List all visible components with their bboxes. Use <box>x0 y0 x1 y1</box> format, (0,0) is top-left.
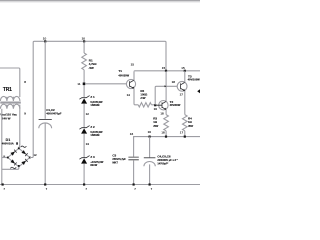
wire: Z2 to Z3 <box>83 134 85 158</box>
top page edge shading <box>0 0 200 3</box>
svg-text:400V/10A: 400V/10A <box>2 142 14 146</box>
AC squiggle bottom <box>10 167 16 168</box>
svg-text:C3: C3 <box>112 154 116 158</box>
wire: secondary left to bridge AC2 <box>1 109 3 185</box>
svg-text:15: 15 <box>131 63 135 67</box>
zener Z1 <box>79 96 89 104</box>
svg-text:40V/100W: 40V/100W <box>188 77 200 81</box>
svg-text:C4,C5,C6: C4,C5,C6 <box>157 155 171 159</box>
svg-text:7: 7 <box>46 187 48 191</box>
node dot at R4 <box>184 136 186 138</box>
wire: rail to R1 <box>83 41 85 53</box>
svg-text:10: 10 <box>43 37 47 41</box>
resistor R1 zigzag <box>82 53 87 70</box>
wire: Z3 to ground rail <box>83 164 85 185</box>
ground dot at bridge <box>2 183 4 185</box>
wire: bridge minus loop to ground <box>2 167 19 170</box>
svg-text:7: 7 <box>3 187 5 191</box>
wire: rail to C3 <box>133 137 135 157</box>
bridge D1 diamond outline <box>8 148 30 167</box>
wire: secondary to bridge AC1 <box>19 105 20 149</box>
svg-text:/5W: /5W <box>187 124 193 128</box>
svg-text:12: 12 <box>33 153 37 157</box>
svg-text:15: 15 <box>162 66 166 70</box>
svg-text:/1W: /1W <box>139 96 145 100</box>
svg-text:40V/30W: 40V/30W <box>170 103 181 107</box>
node dot at C4 branch <box>149 136 151 138</box>
svg-text:11: 11 <box>77 82 80 86</box>
wire: Z1 to Z2 <box>83 104 85 128</box>
wire: R3 to output rail <box>165 131 167 137</box>
bridge D1 diode bottom-right <box>21 159 27 165</box>
wire: top DC rail node 10 <box>33 41 166 70</box>
ground dot at C1,C2 <box>44 183 46 185</box>
wire: rail 2 (node 15) <box>134 71 200 72</box>
capacitor C3 plates <box>128 157 138 160</box>
svg-text:12: 12 <box>86 112 90 116</box>
wire: C3 to ground rail <box>133 160 135 184</box>
ground dot at C4,C5,C6 <box>149 183 151 185</box>
wire: R1 to node 11 <box>83 70 85 97</box>
svg-text:Z 1: Z 1 <box>90 95 95 99</box>
wire: rail branch down to R1 <box>44 41 46 119</box>
node dot 15 at T2 collector <box>165 70 167 72</box>
svg-text:17: 17 <box>180 131 184 135</box>
wire: rail to C4,C5,C6 <box>149 137 151 158</box>
svg-text:14: 14 <box>127 93 131 97</box>
svg-text:17: 17 <box>180 92 184 96</box>
transistor T3 <box>177 81 187 91</box>
wire: R2 to node 16 <box>151 104 155 106</box>
wire: T3 emitter to R4 <box>184 91 186 115</box>
ground dot at C3 <box>133 183 135 185</box>
node dot 10 at R1 branch <box>83 40 85 42</box>
AC squiggle top <box>21 146 27 147</box>
svg-text:18: 18 <box>160 112 164 116</box>
node dot 16 <box>154 104 156 106</box>
svg-text:15: 15 <box>181 66 185 70</box>
output arrow at right edge <box>197 89 200 93</box>
wire: T3 collector to rail 2 <box>184 71 186 83</box>
svg-text:/5W: /5W <box>152 124 158 128</box>
svg-text:240 W: 240 W <box>2 116 11 120</box>
svg-text:1N5339: 1N5339 <box>90 103 100 107</box>
svg-text:16: 16 <box>154 107 158 111</box>
svg-text:Z 3: Z 3 <box>90 155 95 159</box>
svg-text:13: 13 <box>86 142 90 146</box>
wire: T1 emitter down to R2 <box>134 88 138 104</box>
svg-text:8: 8 <box>24 80 26 84</box>
transformer TR1 secondary winding <box>0 104 20 109</box>
svg-text:Z 2: Z 2 <box>90 125 95 129</box>
bridge D1 diode bottom-left <box>10 159 16 165</box>
transformer TR1 core <box>0 102 21 103</box>
wire: T1 collector to rail 2 <box>133 72 135 80</box>
wire: mains input to transformer primary <box>0 68 20 97</box>
svg-text:40V/30W: 40V/30W <box>118 73 129 77</box>
svg-text:9: 9 <box>24 111 26 115</box>
transformer TR1 primary winding <box>0 96 20 101</box>
bridge D1 diode top-left <box>10 150 16 156</box>
svg-text:10: 10 <box>82 37 86 41</box>
svg-text:TR1: TR1 <box>3 87 12 93</box>
resistor R4 zigzag <box>183 115 188 131</box>
capacitor C4,C5,C6 plates <box>144 157 156 159</box>
node dot at T3 collector <box>184 70 186 72</box>
transistor T1 <box>126 79 135 88</box>
capacitor C1,C2 plates <box>39 118 52 120</box>
wire: T2 collector to rail 2 <box>165 71 167 102</box>
svg-text:400V/470µF: 400V/470µF <box>46 112 62 116</box>
wire: ground rail node 7 <box>0 184 200 186</box>
svg-text:/1W: /1W <box>88 66 94 70</box>
svg-text:18: 18 <box>172 80 176 84</box>
transistor T2 <box>156 101 168 110</box>
svg-text:1N5339: 1N5339 <box>90 133 100 137</box>
wire: output rail (node 16/17) <box>134 136 200 139</box>
wire: bridge AC2 tap <box>2 157 8 159</box>
svg-text:14700µF*: 14700µF* <box>157 162 168 165</box>
wire: C4,C5,C6 to ground rail <box>149 164 151 184</box>
bridge corner dots <box>7 147 31 166</box>
zener Z3 <box>79 156 89 164</box>
svg-text:82xW: 82xW <box>90 163 97 167</box>
svg-text:7: 7 <box>134 187 136 191</box>
svg-text:D1: D1 <box>6 138 11 142</box>
zener Z2 <box>79 126 89 134</box>
wire: node 16 up and to T3 base <box>155 86 177 105</box>
wire: R4 to output rail <box>184 131 186 137</box>
wire: bridge plus to rail <box>30 52 33 158</box>
wire: T2 emitter to R3 <box>165 110 167 115</box>
svg-text:16: 16 <box>148 130 152 134</box>
wire: C1,C2 down to ground rail <box>44 123 46 184</box>
junction blob at T2 collector / T3 base crossing <box>165 85 167 87</box>
node dot at R3 <box>165 136 167 138</box>
node dot 10 at C1,C2 branch <box>44 40 46 42</box>
svg-text:7: 7 <box>85 187 87 191</box>
svg-text:16: 16 <box>130 132 134 136</box>
svg-text:MKT: MKT <box>112 160 118 164</box>
svg-text:18: 18 <box>161 131 165 135</box>
wire: node 11 to T1 base <box>85 83 127 85</box>
bridge D1 diode top-right <box>21 150 27 156</box>
node dot 11 <box>83 83 86 86</box>
resistor R2 zigzag <box>138 103 151 107</box>
minus mark at bridge left <box>3 155 5 158</box>
resistor R3 zigzag <box>164 115 169 131</box>
ground dot at zeners <box>83 183 85 185</box>
tiny label at bridge AC1 <box>16 142 18 144</box>
svg-text:T1: T1 <box>118 69 122 73</box>
svg-text:7: 7 <box>151 187 153 191</box>
